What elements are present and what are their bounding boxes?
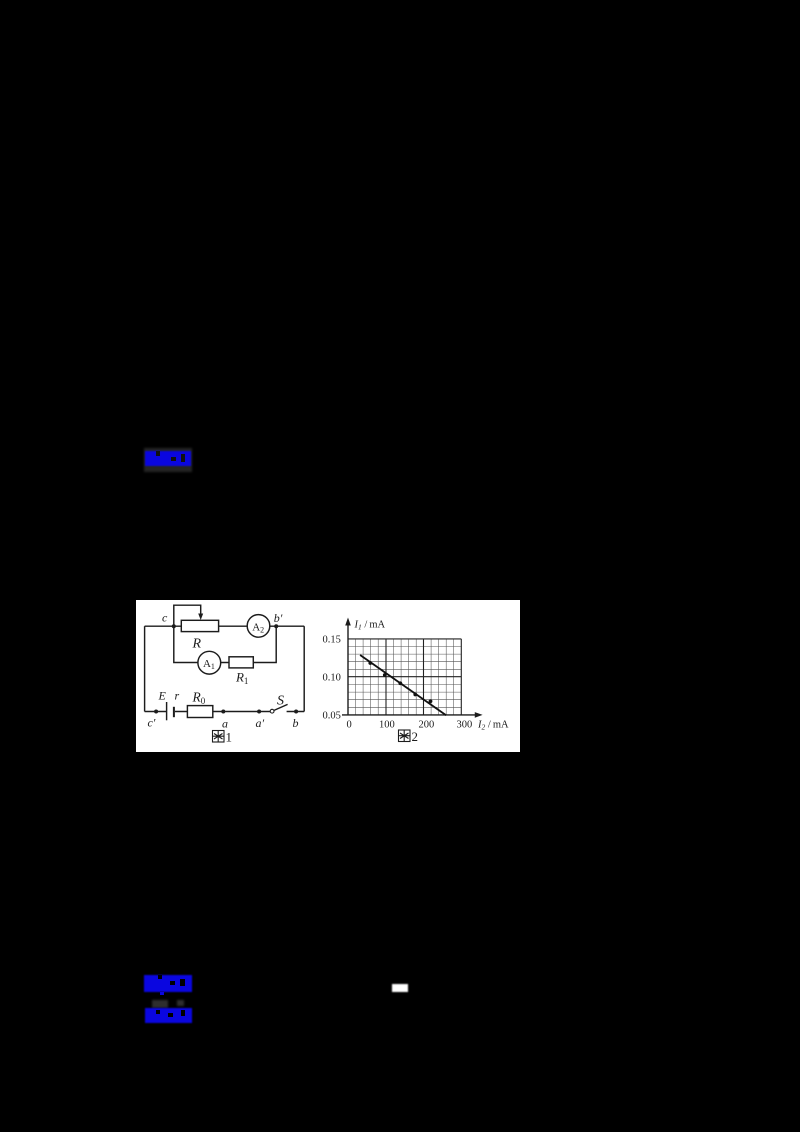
graph grid major: [348, 639, 461, 715]
svg-text:I2 / mA: I2 / mA: [477, 719, 509, 731]
wire right vertical: [303, 626, 305, 711]
node c: [171, 624, 175, 628]
node b': [274, 624, 278, 628]
data line: [360, 655, 446, 715]
switch pivot circle: [270, 709, 274, 713]
ammeter A1: [198, 651, 221, 674]
wire left vertical: [143, 626, 145, 711]
resistor R0: [187, 705, 212, 717]
data point 5: [428, 699, 432, 703]
node a: [221, 709, 225, 713]
node a': [257, 709, 261, 713]
svg-text:a′: a′: [255, 715, 264, 729]
resistor R1: [229, 656, 253, 667]
svg-text:I1 / mA: I1 / mA: [353, 619, 385, 631]
svg-text:r: r: [174, 688, 179, 702]
white dash: [392, 984, 408, 992]
slider arrowhead: [198, 613, 203, 619]
wire bottom rail: [144, 710, 304, 712]
svg-text:1: 1: [225, 729, 232, 744]
x axis: [342, 714, 476, 716]
y axis: [347, 623, 349, 715]
node c': [154, 709, 158, 713]
svg-text:a: a: [222, 716, 228, 730]
battery short plate: [173, 706, 175, 716]
resistor R: [181, 620, 218, 631]
caption 图2: [398, 730, 409, 741]
battery long plate: [165, 702, 167, 720]
svg-text:E: E: [157, 688, 166, 702]
svg-text:2: 2: [411, 729, 417, 744]
svg-text:0: 0: [346, 719, 351, 730]
svg-text:300: 300: [456, 719, 472, 730]
svg-text:R1: R1: [235, 669, 248, 685]
node b: [294, 709, 298, 713]
caption 图1: [212, 730, 223, 741]
svg-text:200: 200: [418, 719, 434, 730]
svg-text:A1: A1: [203, 658, 215, 671]
rheostat slider arm: [173, 605, 200, 626]
answer highlight block 2: [144, 975, 192, 992]
answer highlight block 1: [144, 448, 192, 472]
data point 1: [368, 661, 372, 665]
svg-text:R: R: [191, 636, 201, 651]
wire top rail: [144, 625, 304, 627]
svg-text:0.10: 0.10: [322, 672, 340, 683]
svg-text:c′: c′: [147, 715, 155, 729]
figure panel: [136, 600, 521, 752]
data point 2: [383, 673, 387, 677]
svg-text:c: c: [162, 610, 168, 624]
svg-text:b′: b′: [273, 610, 282, 624]
svg-text:0.15: 0.15: [322, 634, 340, 645]
graph grid minor: [348, 639, 461, 715]
switch S: [274, 704, 288, 710]
svg-text:S: S: [277, 693, 284, 708]
svg-text:b: b: [292, 716, 298, 730]
answer highlight block 3: [145, 1008, 193, 1024]
svg-text:R0: R0: [191, 689, 205, 705]
answer highlight block 3 gray caps: [152, 1000, 168, 1008]
ammeter A2: [247, 614, 270, 637]
svg-text:0.05: 0.05: [322, 710, 340, 721]
wire middle branch: [173, 626, 275, 662]
svg-text:A2: A2: [252, 621, 264, 634]
svg-text:100: 100: [379, 719, 395, 730]
data point 3: [398, 681, 402, 685]
data point 4: [413, 692, 417, 696]
